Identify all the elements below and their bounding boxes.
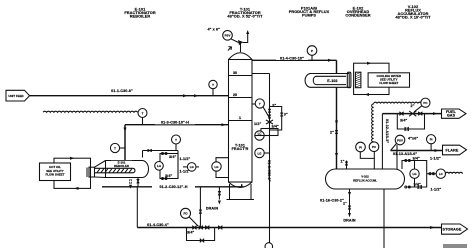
svg-text:REFLUX ACCUM.: REFLUX ACCUM. xyxy=(353,178,377,182)
wire pump suction from accumulator xyxy=(383,189,385,248)
svg-text:2": 2" xyxy=(330,131,334,135)
svg-text:3/4": 3/4" xyxy=(187,231,194,235)
svg-text:30: 30 xyxy=(233,71,237,75)
label vertical fuel gas riser xyxy=(385,119,389,143)
instrument TI feed xyxy=(209,80,217,95)
svg-text:01-4-C30-4": 01-4-C30-4" xyxy=(147,223,169,227)
svg-text:01-4-C30-10": 01-4-C30-10" xyxy=(280,56,304,60)
tray 1 xyxy=(229,116,252,121)
svg-text:1/2": 1/2" xyxy=(254,122,261,126)
HEADERS xyxy=(124,4,431,20)
box UNIT FEED xyxy=(6,90,30,101)
wire PC signal squiggle xyxy=(372,102,422,142)
instrument TI tracing xyxy=(138,109,147,125)
column skirt xyxy=(227,184,255,200)
wire accumulator bridle xyxy=(402,156,442,191)
wire unit feed line xyxy=(30,89,230,98)
instrument TI column xyxy=(252,99,270,118)
pump P-101A xyxy=(265,243,273,248)
svg-text:PSV: PSV xyxy=(397,138,403,142)
svg-text:1": 1" xyxy=(341,160,345,164)
wire steam tracing capillary xyxy=(43,111,138,112)
wire reboiler return line xyxy=(124,120,230,160)
relief valve PSV-2 assembly xyxy=(391,135,419,169)
wire cooling water loop xyxy=(354,62,389,96)
svg-text:PI: PI xyxy=(359,145,362,149)
svg-text:1-1/2": 1-1/2" xyxy=(180,157,191,161)
instrument LC accumulator xyxy=(427,169,446,178)
label E-101 header xyxy=(124,7,156,19)
valve manifold on rundown xyxy=(192,225,222,229)
svg-text:3/4": 3/4" xyxy=(413,156,420,160)
label P-101A/B header xyxy=(289,6,330,18)
wire hot oil loop xyxy=(54,157,91,190)
svg-text:T: T xyxy=(175,138,177,142)
svg-text:3/4": 3/4" xyxy=(272,125,279,129)
wire fuel gas bypass xyxy=(397,114,424,132)
relief valve PSV-1 assembly xyxy=(208,28,250,53)
box cooling water xyxy=(368,73,409,87)
svg-text:01-1-C30-8": 01-1-C30-8" xyxy=(111,89,133,93)
svg-text:T: T xyxy=(259,102,261,106)
svg-text:PUMPS: PUMPS xyxy=(302,13,316,18)
valve E-101 drain xyxy=(129,179,140,189)
instrument PI accumulator xyxy=(356,142,366,152)
wire flare header xyxy=(391,149,443,156)
instrument TI reboiler inlet xyxy=(110,143,125,152)
exchanger E-101 xyxy=(87,161,149,178)
svg-text:DRAIN: DRAIN xyxy=(206,207,218,211)
box FUEL GAS xyxy=(442,109,467,118)
svg-text:01-16-C30-2": 01-16-C30-2" xyxy=(320,199,344,203)
svg-text:4" x 6": 4" x 6" xyxy=(208,28,221,32)
svg-text:3/4": 3/4" xyxy=(400,119,407,123)
wire reboiler feed drop xyxy=(136,187,138,228)
svg-text:3/4": 3/4" xyxy=(169,155,176,159)
instrument LG accumulator xyxy=(410,161,419,188)
wire LC signal squiggle xyxy=(446,172,463,173)
svg-text:T: T xyxy=(142,111,144,115)
svg-text:T: T xyxy=(212,83,214,87)
instrument PC accumulator xyxy=(369,142,379,152)
wire overhead vapor line xyxy=(252,56,338,169)
svg-text:1-1/2": 1-1/2" xyxy=(430,157,441,161)
wire E-101 vapor riser to bridle xyxy=(143,149,179,158)
svg-text:FLOW SHEET: FLOW SHEET xyxy=(46,173,65,177)
svg-text:01-3-C30-10"-H: 01-3-C30-10"-H xyxy=(161,121,189,125)
svg-text:01-2-C30-12"-H: 01-2-C30-12"-H xyxy=(159,185,187,189)
box HOT OIL xyxy=(40,163,71,181)
svg-text:4"x6": 4"x6" xyxy=(408,137,418,141)
svg-text:1: 1 xyxy=(239,116,241,120)
svg-text:PSV: PSV xyxy=(225,34,231,38)
svg-text:DRAIN: DRAIN xyxy=(343,218,355,222)
wire reboiler gauge bridle xyxy=(160,151,191,180)
svg-text:FRACT'R: FRACT'R xyxy=(232,147,249,151)
instrument TI bridle top xyxy=(172,135,181,151)
svg-text:3/4": 3/4" xyxy=(165,174,172,178)
svg-text:48"OD. X 52'-0"T/T: 48"OD. X 52'-0"T/T xyxy=(227,14,263,19)
box STORAGE xyxy=(442,224,468,234)
svg-text:E-102: E-102 xyxy=(327,79,337,83)
svg-text:STORAGE: STORAGE xyxy=(442,228,461,232)
instrument LC column xyxy=(255,131,270,140)
wire storage rundown line xyxy=(137,223,441,230)
svg-text:T: T xyxy=(114,146,116,150)
column T-101 xyxy=(229,53,253,188)
wire V-102 vent valve xyxy=(341,160,349,170)
label T-101 header xyxy=(227,7,263,19)
instrument PI flare xyxy=(427,135,436,151)
E-102 channel head (hatched) xyxy=(355,72,361,88)
svg-text:GAS: GAS xyxy=(447,114,456,118)
wire bottoms drop to storage line xyxy=(199,187,202,228)
label V-102 header xyxy=(395,4,431,20)
wire column drain xyxy=(206,187,221,211)
instrument gauge LG column xyxy=(212,158,229,178)
box HOT OIL redraw xyxy=(40,163,71,181)
instrument LG column low xyxy=(255,148,270,157)
wire rundown bypass xyxy=(187,228,215,243)
label T-101 tag xyxy=(231,143,249,152)
svg-text:PI: PI xyxy=(430,138,433,142)
svg-text:FLOW SHEET: FLOW SHEET xyxy=(379,81,398,85)
wire V-102 instrument stems xyxy=(360,152,374,170)
wire fuel gas line xyxy=(382,104,441,169)
svg-text:48"OD. X 10'-0"T/T: 48"OD. X 10'-0"T/T xyxy=(395,15,431,20)
svg-text:20: 20 xyxy=(233,93,237,97)
instrument gauge LG2 xyxy=(183,163,199,172)
svg-text:2": 2" xyxy=(411,104,415,108)
svg-text:01-13-A1S-6": 01-13-A1S-6" xyxy=(393,152,417,156)
label E-102 header xyxy=(345,6,370,18)
svg-text:P: P xyxy=(311,49,313,53)
svg-text:CONDENSER: CONDENSER xyxy=(345,13,370,18)
svg-text:REBOILER: REBOILER xyxy=(114,164,130,168)
svg-text:01-12-A1S-3": 01-12-A1S-3" xyxy=(385,119,389,143)
svg-text:3": 3" xyxy=(284,113,288,117)
label vertical reflux line xyxy=(267,160,271,182)
svg-text:UNIT FEED: UNIT FEED xyxy=(8,94,23,98)
instrument gauge LG reboiler xyxy=(155,162,164,171)
wire bottoms line xyxy=(102,178,244,190)
svg-text:REBOILER: REBOILER xyxy=(130,14,151,19)
tray 30 xyxy=(229,71,252,76)
svg-text:01-8-C30-3": 01-8-C30-3" xyxy=(267,160,271,182)
svg-text:1-1/2": 1-1/2" xyxy=(431,188,442,192)
svg-text:FLARE: FLARE xyxy=(446,148,459,152)
wire reflux bypass xyxy=(254,107,288,136)
vessel V-102 xyxy=(326,169,405,189)
wire accumulator drain xyxy=(316,189,356,222)
wire reflux line riser xyxy=(252,74,276,243)
instrument FO rundown xyxy=(181,208,199,226)
exchanger E-102 xyxy=(305,72,351,88)
instrument PCV fuel gas xyxy=(414,98,430,112)
box FLARE xyxy=(443,145,467,155)
box cut-off bottom right xyxy=(443,244,467,248)
instrument PT overhead xyxy=(307,46,317,61)
tray 20 xyxy=(229,93,252,98)
